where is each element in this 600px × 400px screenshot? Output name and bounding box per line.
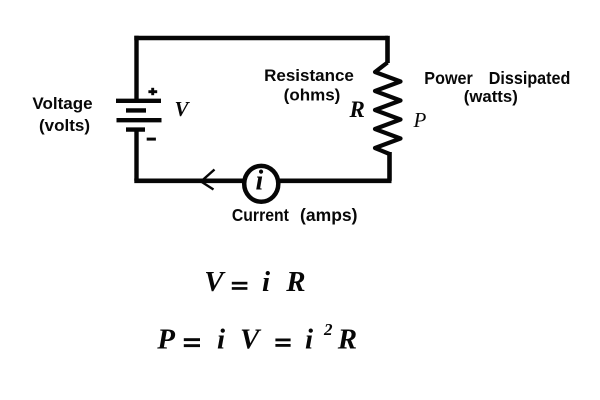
wire bottom rail bbox=[134, 179, 391, 184]
svg-text:i: i bbox=[256, 165, 264, 196]
svg-text:P: P bbox=[413, 108, 427, 132]
battery V1 plate long top (+) bbox=[116, 99, 161, 103]
svg-text:2: 2 bbox=[323, 320, 333, 339]
svg-text:Power: Power bbox=[424, 68, 473, 88]
svg-text:V: V bbox=[175, 97, 191, 121]
current arrow (direction chevron) bbox=[201, 170, 215, 190]
wire top rail bbox=[134, 36, 388, 40]
svg-text:V: V bbox=[204, 266, 226, 298]
eq1 equals sign bbox=[232, 282, 248, 290]
wire right bottom segment bbox=[387, 152, 392, 181]
svg-text:R: R bbox=[285, 266, 305, 298]
battery minus terminal label bbox=[147, 138, 156, 141]
wire left bottom segment bbox=[134, 130, 138, 181]
eq2 second equals sign bbox=[275, 339, 290, 347]
svg-text:i: i bbox=[217, 324, 225, 356]
battery V1 plate short upper bbox=[126, 108, 146, 112]
wire right top segment bbox=[385, 36, 390, 63]
svg-text:P: P bbox=[156, 324, 175, 356]
resistor R1 zigzag bbox=[375, 63, 401, 155]
svg-text:i: i bbox=[305, 324, 313, 356]
svg-text:Dissipated: Dissipated bbox=[489, 68, 571, 88]
svg-text:Voltage: Voltage bbox=[32, 94, 92, 113]
svg-text:(amps): (amps) bbox=[300, 205, 358, 225]
svg-text:V: V bbox=[240, 324, 262, 356]
svg-text:(volts): (volts) bbox=[39, 116, 90, 135]
equation 2: P = i V = i^2 R bbox=[156, 320, 357, 356]
battery V1 plate short bottom (-) bbox=[126, 127, 145, 131]
battery V1 plate long lower bbox=[117, 118, 162, 122]
svg-text:i: i bbox=[262, 266, 270, 298]
ammeter M1 circle bbox=[244, 166, 278, 202]
svg-text:(ohms): (ohms) bbox=[284, 86, 341, 105]
svg-text:R: R bbox=[349, 97, 365, 122]
svg-text:R: R bbox=[337, 324, 357, 356]
equation 1: V = i R bbox=[204, 266, 305, 298]
battery plus terminal label bbox=[148, 88, 157, 95]
svg-text:Resistance: Resistance bbox=[264, 66, 354, 85]
eq2 first equals sign bbox=[184, 338, 200, 347]
wire left top segment bbox=[134, 36, 138, 101]
svg-text:(watts): (watts) bbox=[464, 87, 518, 106]
svg-text:Current: Current bbox=[232, 205, 289, 225]
